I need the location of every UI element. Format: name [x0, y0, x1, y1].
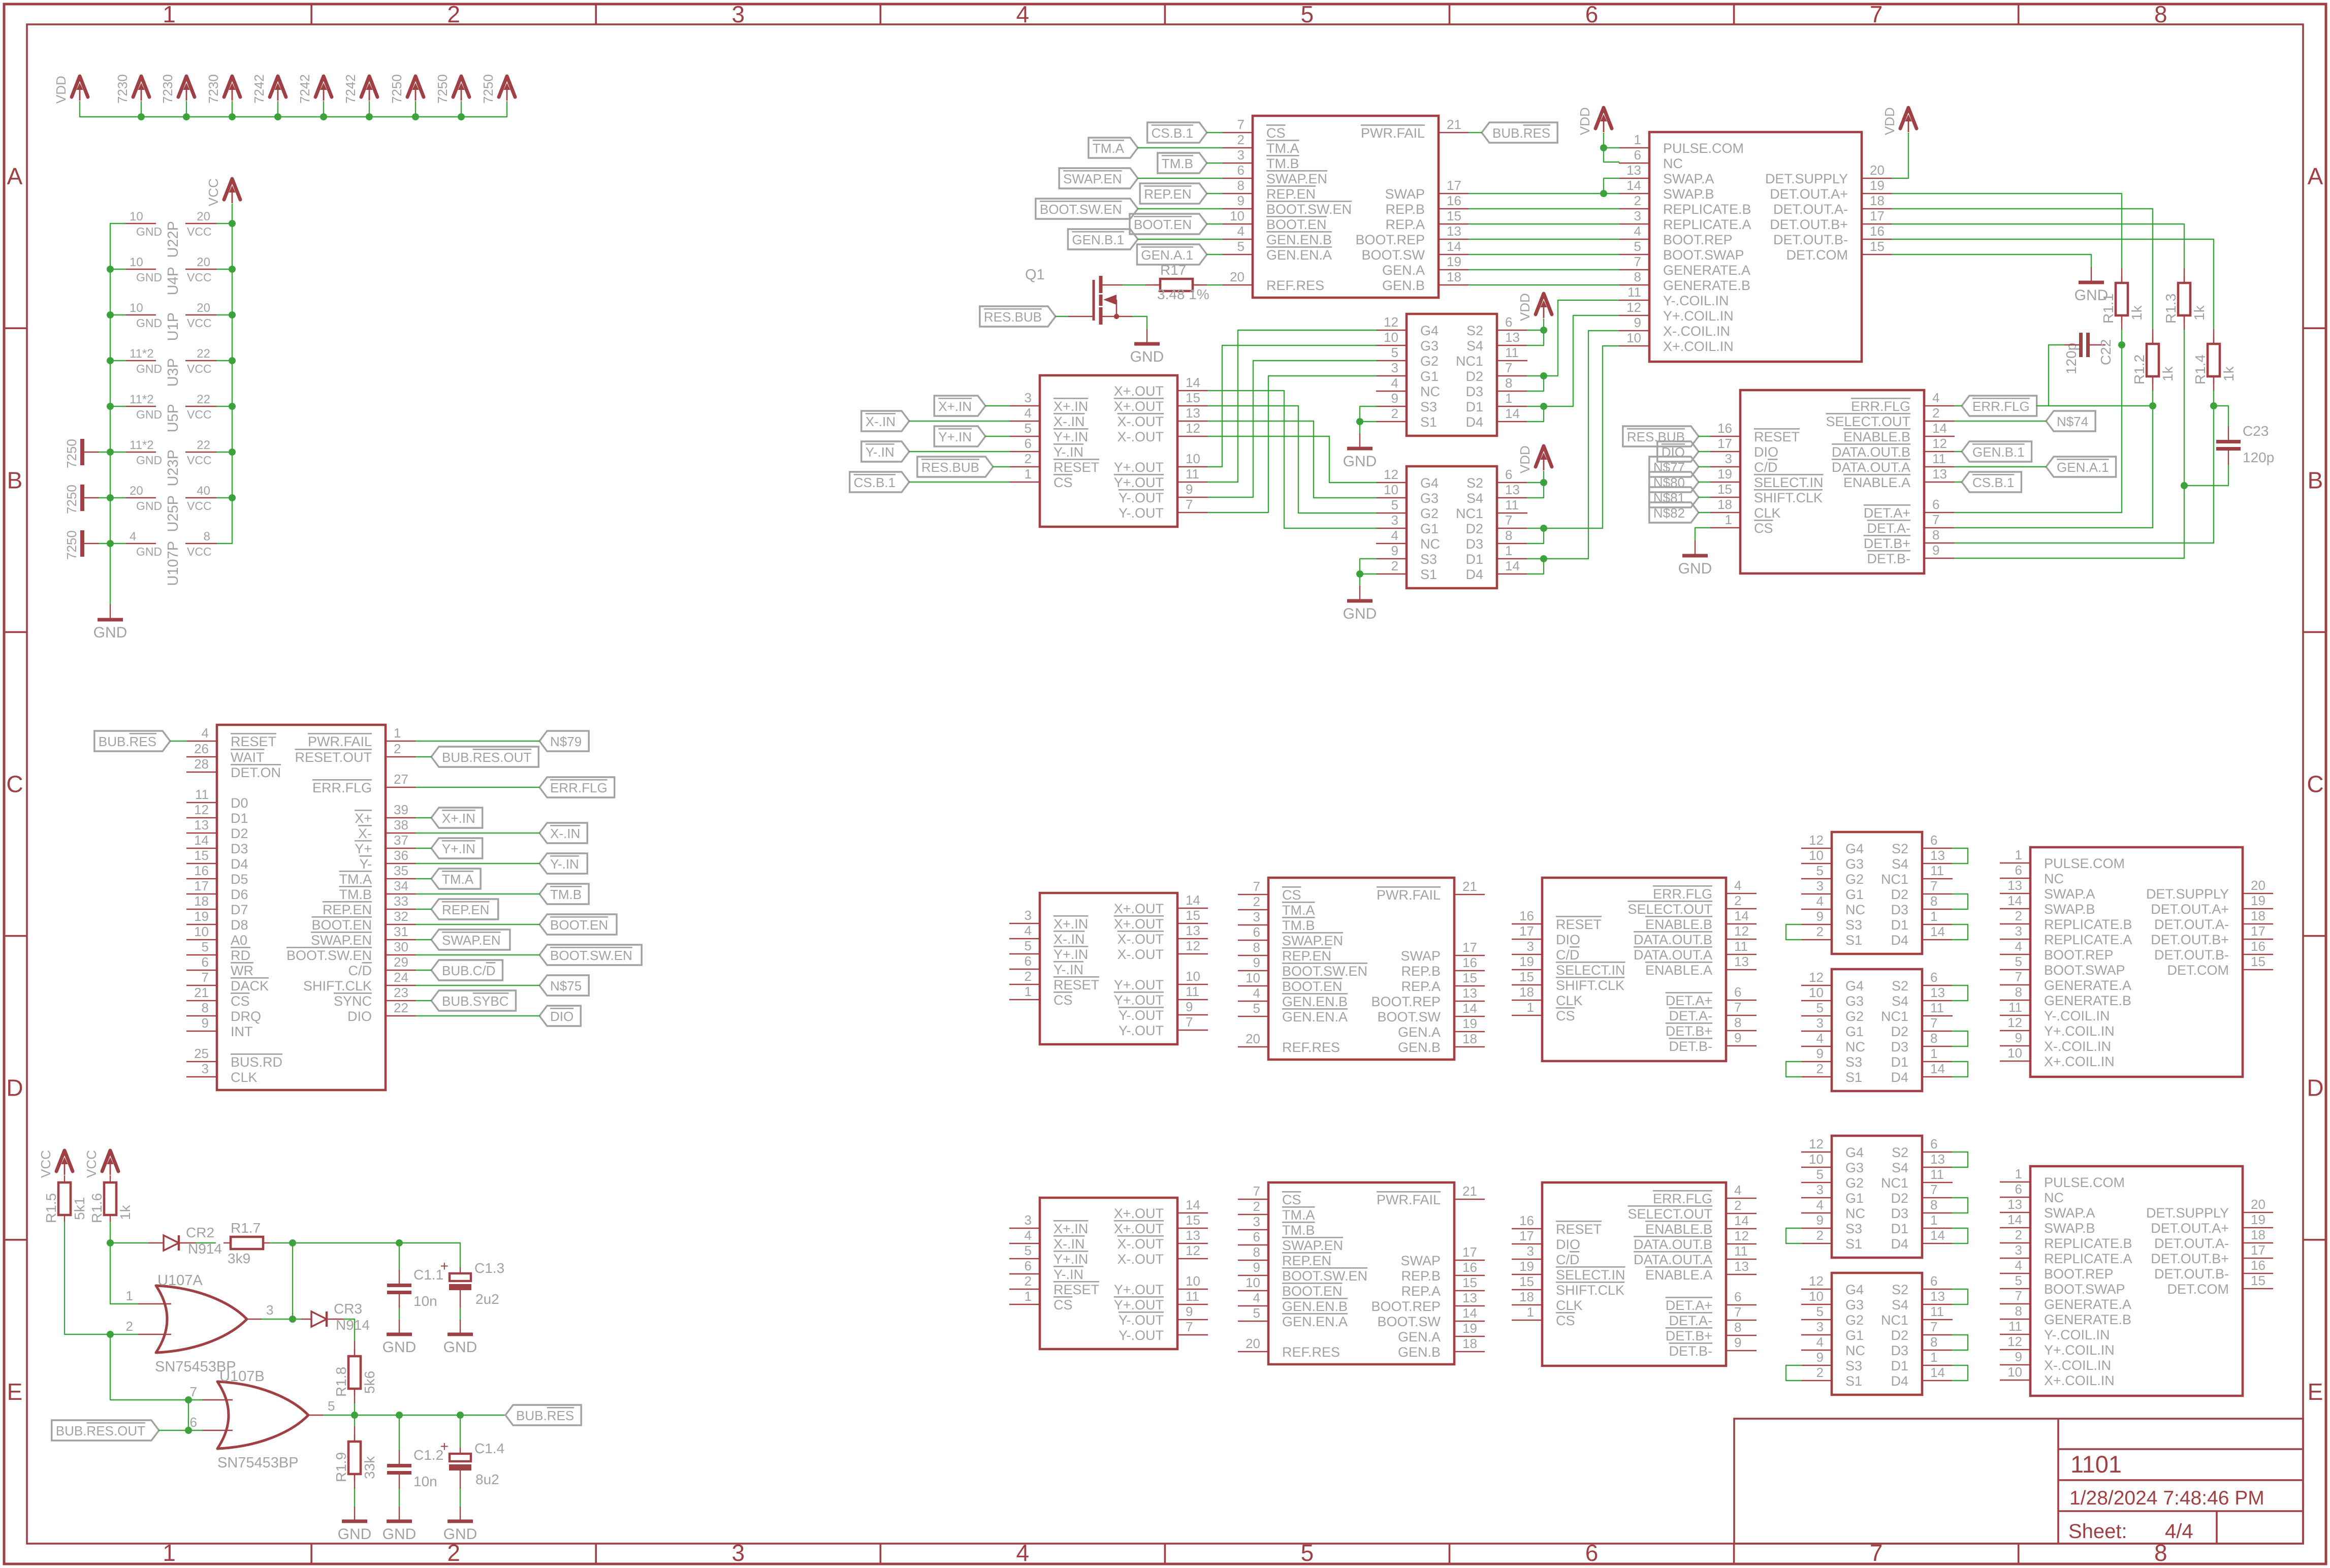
svg-text:VCC: VCC [187, 316, 212, 330]
svg-text:3: 3 [731, 1, 745, 27]
svg-text:SELECT.IN: SELECT.IN [1556, 1267, 1625, 1283]
svg-text:VCC: VCC [187, 362, 212, 375]
wire [110, 452, 125, 453]
svg-text:Y-.IN: Y-.IN [550, 856, 579, 872]
svg-text:12: 12 [1932, 436, 1947, 451]
wire DET.OUT.B+ to R1.3 [1892, 224, 2184, 268]
junction [185, 1396, 192, 1403]
svg-text:SHIFT.CLK: SHIFT.CLK [303, 978, 372, 994]
svg-text:20: 20 [197, 255, 210, 269]
svg-text:9: 9 [1634, 315, 1641, 330]
svg-text:7230: 7230 [206, 74, 221, 104]
svg-text:10: 10 [1246, 970, 1260, 985]
svg-text:8: 8 [1734, 1320, 1741, 1335]
svg-text:VDD: VDD [1517, 445, 1533, 473]
svg-text:4: 4 [1016, 1540, 1030, 1566]
svg-text:8: 8 [1253, 940, 1260, 955]
svg-text:3: 3 [1725, 451, 1732, 466]
svg-text:R17: R17 [1160, 262, 1186, 278]
junction R1.3/C23 [2181, 482, 2188, 489]
svg-text:7250: 7250 [64, 530, 79, 560]
svg-text:BOOT.EN: BOOT.EN [1282, 979, 1343, 994]
svg-text:10: 10 [1246, 1275, 1260, 1290]
svg-text:9: 9 [1932, 542, 1939, 558]
svg-text:A0: A0 [231, 933, 247, 948]
junction [457, 1412, 464, 1419]
wire BIG22 to BIG20 [1469, 239, 1619, 240]
svg-text:S3: S3 [1845, 1054, 1862, 1070]
wire [460, 1308, 461, 1320]
svg-text:18: 18 [1462, 1031, 1477, 1046]
svg-text:GENERATE.B: GENERATE.B [2044, 993, 2131, 1008]
wire [1207, 223, 1222, 225]
svg-text:BUS.RD: BUS.RD [231, 1054, 282, 1070]
svg-text:22: 22 [197, 347, 210, 361]
svg-text:D2: D2 [1891, 1024, 1908, 1039]
net label GEN.A.1 [1137, 244, 1207, 265]
svg-text:X+.IN: X+.IN [1054, 399, 1088, 414]
wire R1.1 node down to DET.A+ [2121, 345, 2122, 513]
svg-text:21: 21 [1462, 1183, 1477, 1199]
svg-text:10: 10 [1626, 330, 1641, 345]
svg-text:RESET.OUT: RESET.OUT [295, 750, 372, 765]
svg-text:GND: GND [136, 499, 162, 513]
wire [416, 863, 539, 864]
svg-text:2: 2 [1816, 1365, 1824, 1380]
svg-text:DET.OUT.B+: DET.OUT.B+ [2151, 1251, 2229, 1266]
svg-text:11: 11 [1930, 863, 1944, 878]
wire DET.OUT.A- to R1.2 [1892, 209, 2153, 329]
svg-text:20: 20 [1246, 1031, 1260, 1046]
svg-text:D3: D3 [1891, 902, 1908, 917]
junction [412, 113, 419, 120]
net label CS.B.1 [1962, 472, 2021, 492]
svg-text:6: 6 [1585, 1540, 1599, 1566]
pin 3 output [247, 1319, 262, 1320]
svg-text:G4: G4 [1845, 841, 1864, 856]
wire [416, 878, 431, 879]
svg-text:7: 7 [1930, 878, 1937, 893]
svg-text:VDD: VDD [1882, 107, 1897, 135]
svg-text:DET.OUT.A-: DET.OUT.A- [2154, 1236, 2229, 1251]
svg-text:7: 7 [1930, 1319, 1937, 1334]
svg-text:15: 15 [1462, 970, 1477, 985]
wire S2-S4 hook [1953, 1152, 1968, 1167]
supply symbol 7250 [407, 76, 424, 97]
svg-text:29: 29 [394, 954, 408, 970]
wire [110, 406, 125, 407]
svg-text:13: 13 [1734, 954, 1749, 969]
ground GND BIG17 [1695, 540, 1696, 556]
net label BUB.RES.OUT [431, 747, 538, 767]
wire stub [323, 102, 324, 117]
svg-text:GEN.B: GEN.B [1398, 1345, 1441, 1360]
svg-text:9: 9 [1734, 1335, 1741, 1350]
wire S2-S4 hook [1953, 985, 1968, 1001]
wire R1.2 node to DET.A- [2152, 406, 2153, 528]
svg-text:NC: NC [1663, 156, 1683, 171]
svg-text:7: 7 [1870, 1, 1883, 27]
svg-text:GEN.EN.B: GEN.EN.B [1282, 1299, 1348, 1314]
svg-text:3: 3 [1025, 908, 1032, 923]
title block [1734, 1419, 2303, 1544]
svg-text:DET.OUT.A+: DET.OUT.A+ [2151, 902, 2229, 917]
svg-text:5: 5 [1816, 1167, 1824, 1182]
svg-text:5: 5 [328, 1398, 335, 1414]
svg-text:BOOT.EN: BOOT.EN [1134, 217, 1192, 232]
svg-text:7: 7 [1734, 1304, 1741, 1320]
svg-text:Y-.OUT: Y-.OUT [1119, 1008, 1164, 1023]
svg-text:G3: G3 [1845, 994, 1864, 1009]
svg-text:REP.B: REP.B [1385, 202, 1425, 217]
svg-text:REPLICATE.A: REPLICATE.A [2044, 932, 2132, 947]
svg-text:13: 13 [2007, 878, 2022, 893]
svg-text:10: 10 [1809, 985, 1824, 1000]
svg-text:3: 3 [1527, 939, 1534, 954]
supply symbol 7230 [133, 76, 149, 97]
svg-text:11: 11 [1930, 1000, 1944, 1015]
svg-text:5: 5 [1391, 345, 1398, 360]
svg-text:10: 10 [1809, 848, 1824, 863]
svg-text:G1: G1 [1420, 521, 1439, 536]
svg-text:RES.BUB: RES.BUB [921, 460, 979, 475]
svg-text:6: 6 [1253, 1229, 1260, 1244]
svg-text:GND: GND [136, 362, 162, 375]
svg-text:Y+.OUT: Y+.OUT [1114, 460, 1164, 475]
svg-text:REF.RES: REF.RES [1266, 278, 1324, 293]
svg-text:X+.OUT: X+.OUT [1114, 1221, 1164, 1236]
svg-text:DATA.OUT.B: DATA.OUT.B [1832, 444, 1910, 460]
svg-text:D1: D1 [231, 811, 248, 826]
svg-text:4: 4 [1634, 223, 1641, 239]
svg-text:A: A [2308, 163, 2323, 189]
wire S2/S4 #2 to VDD [1527, 471, 1544, 483]
supply symbol VDD [72, 76, 88, 97]
wire [217, 223, 232, 224]
svg-text:RESET: RESET [231, 734, 276, 749]
wire [217, 314, 232, 315]
svg-text:TM.B: TM.B [550, 887, 582, 902]
svg-text:BOOT.SW.EN: BOOT.SW.EN [1282, 1268, 1367, 1284]
svg-text:5k6: 5k6 [362, 1371, 377, 1394]
svg-text:DET.B-: DET.B- [1867, 551, 1910, 566]
svg-text:32: 32 [394, 909, 408, 924]
svg-text:D3: D3 [1891, 1343, 1908, 1358]
svg-text:TM.A: TM.A [1266, 141, 1299, 156]
svg-text:SWAP.EN: SWAP.EN [442, 933, 501, 948]
svg-text:PULSE.COM: PULSE.COM [1663, 141, 1744, 156]
svg-text:2: 2 [2015, 908, 2022, 923]
svg-text:SWAP.A: SWAP.A [2044, 1205, 2095, 1221]
svg-text:2: 2 [447, 1540, 460, 1566]
svg-text:REP.EN: REP.EN [442, 902, 489, 917]
svg-text:S4: S4 [1892, 994, 1908, 1009]
svg-text:Y+.IN: Y+.IN [1054, 947, 1088, 962]
svg-text:5: 5 [1025, 1243, 1032, 1258]
supply 7250 bar [80, 485, 84, 511]
svg-text:GND: GND [136, 454, 162, 467]
svg-text:4: 4 [1253, 1290, 1260, 1305]
svg-text:5: 5 [1253, 1001, 1260, 1016]
net label X-.IN [861, 411, 909, 431]
svg-text:DET.SUPPLY: DET.SUPPLY [2146, 886, 2229, 902]
svg-text:C/D: C/D [1556, 1252, 1580, 1267]
wire CS to GND [1695, 528, 1710, 540]
wire R1.6 to CR2 node [110, 1222, 111, 1243]
svg-text:RES.BUB: RES.BUB [984, 309, 1042, 325]
supply symbol 7242 [315, 76, 332, 97]
svg-text:4: 4 [1253, 985, 1260, 1001]
svg-text:U25P: U25P [165, 495, 181, 532]
svg-text:DET.OUT.A-: DET.OUT.A- [2154, 917, 2229, 932]
capacitor C23 120p [2228, 426, 2229, 440]
svg-text:7: 7 [1930, 1015, 1937, 1031]
wire D1-D4 hook [1953, 1365, 1968, 1381]
svg-text:VCC: VCC [84, 1150, 99, 1178]
svg-text:14: 14 [1462, 1001, 1477, 1016]
svg-text:D1: D1 [1465, 399, 1483, 414]
junction [183, 113, 190, 120]
svg-text:GEN.EN.A: GEN.EN.A [1282, 1314, 1348, 1329]
wire [1955, 482, 1962, 483]
wire R1.4 node to C23 [2214, 406, 2228, 426]
wire DET.OUT.B- to R1.4 [1892, 239, 2214, 329]
svg-text:CR3: CR3 [334, 1301, 362, 1317]
svg-text:11: 11 [1734, 1243, 1748, 1259]
svg-text:8u2: 8u2 [475, 1471, 499, 1487]
svg-text:X-.OUT: X-.OUT [1118, 414, 1164, 429]
svg-text:BUB.RES.OUT: BUB.RES.OUT [442, 750, 531, 765]
svg-text:6: 6 [1237, 163, 1244, 178]
svg-text:GND: GND [1130, 348, 1164, 365]
wire [985, 436, 1009, 437]
svg-text:SELECT.OUT: SELECT.OUT [1627, 902, 1712, 917]
svg-text:REPLICATE.B: REPLICATE.B [2044, 917, 2132, 932]
wire [1699, 512, 1710, 513]
svg-text:CS: CS [1282, 887, 1301, 903]
svg-text:BOOT.SW.EN: BOOT.SW.EN [1040, 202, 1122, 217]
junction R1.2 node [2149, 402, 2156, 409]
wire [909, 421, 1009, 422]
quad switch SMALL8 #2 [1407, 466, 1497, 588]
net label BOOT.SW.EN [539, 945, 642, 965]
svg-text:N$75: N$75 [550, 978, 582, 994]
svg-text:19: 19 [2251, 1212, 2265, 1227]
svg-text:3: 3 [1253, 909, 1260, 924]
ground GND Q1 [1146, 329, 1147, 344]
pin 7 [202, 1399, 233, 1400]
svg-text:7: 7 [2015, 1288, 2022, 1303]
svg-text:X-.OUT: X-.OUT [1118, 1252, 1164, 1267]
svg-text:D1: D1 [1891, 917, 1908, 933]
svg-text:Y+.IN: Y+.IN [1054, 1252, 1088, 1267]
svg-text:12: 12 [1734, 923, 1749, 939]
svg-text:12: 12 [1186, 1243, 1200, 1258]
svg-text:SWAP.EN: SWAP.EN [1266, 171, 1327, 186]
svg-text:S4: S4 [1892, 856, 1908, 872]
svg-text:1: 1 [1634, 132, 1641, 147]
svg-text:NC: NC [1420, 384, 1440, 399]
svg-text:GENERATE.B: GENERATE.B [2044, 1312, 2131, 1327]
svg-text:2: 2 [1025, 1273, 1032, 1289]
svg-text:8: 8 [1930, 1197, 1937, 1212]
wire [1207, 254, 1222, 255]
junction [107, 357, 114, 364]
svg-text:DET.COM: DET.COM [1786, 247, 1848, 263]
svg-text:30: 30 [394, 939, 408, 954]
svg-text:5: 5 [1025, 938, 1032, 953]
svg-text:6: 6 [1930, 1136, 1937, 1151]
svg-text:S2: S2 [1466, 323, 1483, 338]
wire VDD to pin1/pin6 [1604, 133, 1619, 162]
junction [229, 403, 236, 410]
svg-text:SHIFT.CLK: SHIFT.CLK [1556, 978, 1624, 993]
net label N$81 [1649, 487, 1699, 507]
svg-text:VCC: VCC [187, 545, 212, 558]
svg-text:15: 15 [1870, 239, 1885, 254]
svg-text:NC: NC [1845, 1206, 1865, 1221]
svg-text:Y-.IN: Y-.IN [866, 444, 895, 460]
svg-text:C23: C23 [2243, 423, 2269, 439]
svg-text:4: 4 [1932, 390, 1939, 405]
net label BUB.SYBC [431, 990, 516, 1011]
wire [416, 954, 539, 955]
net label RES.BUB [980, 306, 1056, 327]
svg-text:REPLICATE.B: REPLICATE.B [1663, 202, 1751, 217]
svg-text:13: 13 [194, 817, 209, 833]
svg-text:7250: 7250 [64, 485, 79, 514]
svg-text:4: 4 [1734, 878, 1741, 893]
junction C1.1 top [396, 1239, 403, 1246]
wire [1699, 497, 1710, 498]
svg-text:PULSE.COM: PULSE.COM [2044, 1175, 2125, 1190]
svg-text:SN75453BP: SN75453BP [217, 1455, 299, 1471]
svg-text:Y+.OUT: Y+.OUT [1114, 993, 1164, 1008]
svg-text:BOOT.REP: BOOT.REP [2044, 947, 2114, 963]
net label TM.B [539, 884, 589, 904]
wire [416, 1000, 431, 1001]
svg-text:15: 15 [194, 848, 209, 863]
junction [396, 1412, 403, 1419]
junction node B [351, 1412, 358, 1419]
svg-text:SWAP.A: SWAP.A [2044, 886, 2095, 902]
power pins U25P [125, 497, 156, 498]
svg-text:14: 14 [1930, 924, 1945, 939]
quad switch spare row E upper [1832, 1136, 1922, 1258]
svg-text:13: 13 [1505, 482, 1520, 497]
svg-text:15: 15 [1519, 969, 1534, 984]
svg-text:3: 3 [202, 1061, 209, 1076]
wire [1138, 208, 1222, 209]
svg-text:S3: S3 [1845, 1358, 1862, 1373]
ground GND C1.3 [460, 1320, 461, 1334]
svg-text:VCC: VCC [187, 225, 212, 238]
svg-text:U107P: U107P [165, 541, 181, 586]
svg-text:BOOT.SW: BOOT.SW [1361, 247, 1425, 263]
wire R1.8 to node B [354, 1404, 355, 1415]
svg-text:6: 6 [1025, 1258, 1032, 1273]
svg-text:9: 9 [1816, 1350, 1824, 1365]
svg-text:1: 1 [1930, 909, 1937, 924]
junction [1600, 190, 1607, 197]
wire [909, 482, 1009, 483]
svg-text:13: 13 [1186, 405, 1200, 421]
svg-text:15: 15 [1462, 1275, 1477, 1290]
wire SWAP net [1469, 193, 1619, 194]
wire VCC column [217, 204, 232, 543]
svg-text:CLK: CLK [1556, 993, 1583, 1008]
supply symbol VDD (DET.SUPPLY) [1900, 108, 1917, 129]
svg-text:G4: G4 [1845, 978, 1864, 994]
wire ERR.FLG net rail [2037, 405, 2153, 406]
svg-text:4: 4 [1816, 893, 1824, 909]
svg-text:1k: 1k [2221, 366, 2237, 381]
svg-text:BOOT.SWAP: BOOT.SWAP [2044, 1282, 2125, 1297]
resistor R1.9 33k [354, 1415, 355, 1426]
svg-text:DET.A+: DET.A+ [1666, 993, 1712, 1008]
svg-text:20: 20 [197, 210, 210, 223]
svg-text:7: 7 [1734, 1000, 1741, 1015]
net label DIO [539, 1006, 581, 1026]
IC bubble memory (BIG20) [1649, 132, 1862, 362]
svg-text:D7: D7 [231, 902, 248, 917]
wire [1699, 436, 1710, 437]
svg-text:REP.B: REP.B [1401, 1268, 1441, 1284]
svg-text:X-.OUT: X-.OUT [1118, 932, 1164, 947]
svg-text:REP.B: REP.B [1401, 964, 1441, 979]
wire D1-D4 hook [1953, 1228, 1968, 1243]
svg-text:6: 6 [1930, 1273, 1937, 1289]
svg-text:3: 3 [1025, 1212, 1032, 1228]
svg-text:13: 13 [1932, 466, 1947, 482]
svg-text:GEN.B.1: GEN.B.1 [1972, 444, 2025, 460]
svg-text:Y-.IN: Y-.IN [1054, 962, 1083, 977]
svg-text:TM.B: TM.B [1282, 918, 1315, 933]
ground GND DET.COM [2091, 267, 2092, 282]
svg-text:2: 2 [1391, 558, 1398, 573]
svg-text:2: 2 [1932, 405, 1939, 421]
svg-text:5: 5 [1253, 1305, 1260, 1321]
svg-text:5: 5 [1634, 239, 1641, 254]
svg-text:BOOT.EN: BOOT.EN [1266, 217, 1327, 232]
wire [354, 1489, 355, 1507]
svg-text:11: 11 [1186, 984, 1199, 999]
svg-text:17: 17 [1519, 1228, 1534, 1243]
svg-text:26: 26 [194, 741, 209, 756]
net label Y+.IN [934, 426, 985, 446]
svg-text:9: 9 [1186, 1304, 1193, 1319]
svg-text:X-.COIL.IN: X-.COIL.IN [1663, 324, 1730, 339]
wire D2-D3 hook [1953, 1031, 1968, 1046]
svg-text:14: 14 [1930, 1228, 1945, 1243]
svg-text:D2: D2 [231, 826, 248, 841]
wire [1699, 482, 1710, 483]
svg-text:6: 6 [1930, 833, 1937, 848]
svg-text:33k: 33k [362, 1456, 377, 1479]
svg-text:BUB.C/D: BUB.C/D [442, 963, 495, 978]
svg-text:20: 20 [2251, 878, 2265, 893]
svg-text:8: 8 [1930, 1334, 1937, 1350]
svg-text:D4: D4 [1465, 567, 1483, 582]
IC bubble controller spare row E [1268, 1182, 1454, 1364]
svg-text:VCC: VCC [187, 454, 212, 467]
resistor R1.3 1k [2184, 268, 2185, 283]
svg-text:CS: CS [1556, 1313, 1575, 1328]
wire [1207, 163, 1222, 164]
svg-text:DATA.OUT.B: DATA.OUT.B [1634, 1237, 1712, 1252]
svg-text:6: 6 [1932, 497, 1939, 512]
junction [1600, 144, 1607, 151]
